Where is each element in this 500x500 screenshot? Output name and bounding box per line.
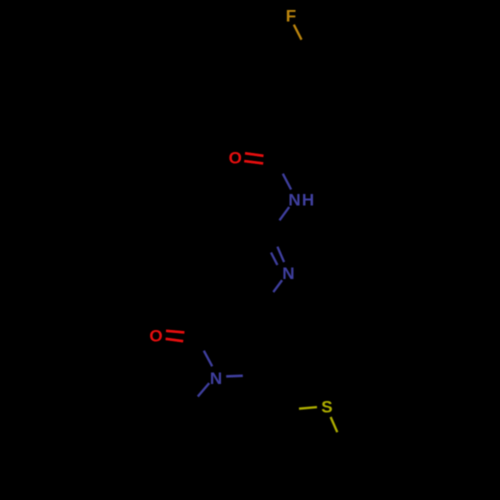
- bond C=N left line: [271, 253, 277, 266]
- bond lactam C=O upper line: [166, 331, 184, 333]
- bond C=N right line: [277, 247, 284, 262]
- svg-text:N: N: [288, 190, 300, 209]
- svg-text:F: F: [286, 6, 296, 25]
- bond lactam C=O lower line: [166, 339, 184, 341]
- bond N-CH3: [198, 383, 209, 396]
- bond C=O lower line: [244, 161, 263, 163]
- svg-text:N: N: [210, 369, 222, 388]
- bond C-N (to NH, upper half): [283, 174, 291, 190]
- svg-text:H: H: [302, 190, 314, 209]
- bond C=O upper line: [245, 153, 264, 156]
- bond N-C (below pyridine N): [273, 280, 282, 292]
- bond F-C: [294, 25, 302, 40]
- bond C-N (lactam, upper half): [204, 351, 212, 367]
- svg-text:S: S: [321, 398, 332, 417]
- svg-text:O: O: [229, 149, 242, 168]
- bond N-C right (ring): [226, 375, 243, 378]
- bond C-S (left half): [299, 407, 317, 409]
- bond NH-C (lower half): [280, 207, 290, 220]
- svg-text:O: O: [149, 327, 162, 346]
- svg-text:N: N: [282, 264, 294, 283]
- bond S-CH3: [331, 417, 338, 432]
